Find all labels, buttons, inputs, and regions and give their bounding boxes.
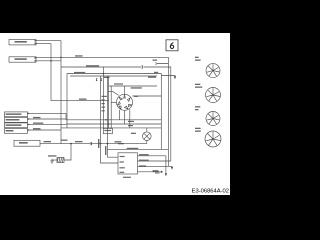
ignition switch terminal marks xyxy=(118,95,132,109)
harness bundle verticals xyxy=(101,76,119,163)
stub label tb xyxy=(153,60,158,61)
relay box small xyxy=(103,128,112,133)
wire label blower xyxy=(61,140,68,141)
relay label xyxy=(104,130,111,131)
junction dots xyxy=(50,57,109,145)
wire label starter 1 xyxy=(44,141,52,142)
harness stack labels xyxy=(102,96,107,97)
inline connector on starter wire xyxy=(91,142,92,145)
wire switch top-left bend xyxy=(108,91,119,95)
connector view 4 xyxy=(205,131,221,147)
wire right edge stub xyxy=(161,75,175,78)
drop arrow right b xyxy=(165,173,167,176)
connector view 3 xyxy=(206,112,220,126)
housing inlet connectors xyxy=(96,78,102,81)
bottom row label a xyxy=(128,121,134,122)
rotated harness label a xyxy=(98,139,99,148)
meter circle xyxy=(143,132,152,141)
wire switch left stub xyxy=(111,101,116,103)
wire row to right drops xyxy=(107,148,168,150)
module pin labels xyxy=(120,156,125,157)
wire label row86 left xyxy=(114,83,123,84)
wire L1 top to bus x61 xyxy=(36,40,61,42)
bottom row label b xyxy=(128,125,133,126)
switch housing sides xyxy=(67,74,161,150)
rotated harness label b xyxy=(105,146,106,155)
headlight L1 box xyxy=(9,40,36,45)
wire fuse to ground xyxy=(52,159,57,161)
splice square xyxy=(161,171,163,173)
wire label lt gr mid xyxy=(79,99,87,100)
meter label xyxy=(131,133,136,134)
connector 4 caption xyxy=(195,128,201,129)
wire label or bl xyxy=(33,128,41,129)
afterfire sol box xyxy=(5,118,28,123)
afterfire sol label xyxy=(6,119,20,121)
wire label or rd bk xyxy=(33,123,43,124)
wire L2 top long run across to right drop xyxy=(36,57,168,166)
wire label switch inner xyxy=(134,96,138,97)
ignition switch circle xyxy=(117,94,133,110)
headlight L1 label xyxy=(15,41,27,43)
wire switch top stub xyxy=(124,86,126,94)
drop arrow right a xyxy=(171,167,173,170)
tiny text smudges xyxy=(6,41,203,178)
wire bus x61 down xyxy=(60,41,62,144)
inline connector pair xyxy=(142,66,143,69)
wire label starter 2 xyxy=(75,141,83,142)
lower splice label xyxy=(153,170,159,171)
starter box xyxy=(14,140,40,146)
module wire labels xyxy=(139,154,149,155)
letterbox background xyxy=(0,0,230,230)
housing top right label xyxy=(148,77,156,78)
wire magneto xyxy=(30,129,62,131)
module wires right xyxy=(138,156,173,174)
wire terminal row xyxy=(109,85,157,87)
interlock module box xyxy=(118,153,138,174)
module bottom wire xyxy=(138,171,161,173)
wire alternator AC xyxy=(30,113,67,119)
callout 6 box xyxy=(166,40,178,51)
wire bundle top tie xyxy=(102,67,104,76)
wire label lt blk xyxy=(118,143,124,144)
wire switch right stub xyxy=(132,95,161,97)
connector 3 caption xyxy=(195,106,200,107)
connector view 1 xyxy=(206,64,220,78)
switch housing top xyxy=(67,73,161,75)
junction fuse tap xyxy=(64,144,71,160)
module bottom label xyxy=(123,177,131,178)
wire starter run to meter stem xyxy=(40,143,147,145)
wire label switch top xyxy=(131,87,142,88)
wire meter top stem xyxy=(146,128,148,132)
starter label xyxy=(19,142,28,144)
wire L1 bottom to bus x51 xyxy=(36,43,51,45)
diagram white sheet xyxy=(0,33,230,195)
wire label rd blk xyxy=(74,72,85,73)
headlight L1 pins xyxy=(35,40,37,44)
headlight L2 pins xyxy=(35,58,37,62)
wire label blk wh xyxy=(86,65,99,66)
wire label lt rd left xyxy=(33,117,41,118)
magneto box xyxy=(5,129,28,134)
wire switch bottom drops xyxy=(120,109,130,128)
drop arrow top right xyxy=(174,76,176,79)
svg-text:E3-06864A-02: E3-06864A-02 xyxy=(192,189,229,195)
wire L2 bottom xyxy=(36,60,61,62)
alternator DC box xyxy=(5,123,28,128)
wire label rd blk row xyxy=(127,148,139,149)
meter cross xyxy=(144,133,150,139)
wire stub tb xyxy=(156,62,169,65)
connector view 2 xyxy=(206,88,221,103)
wire housing bottom rows xyxy=(61,120,161,128)
housing inlet label xyxy=(104,77,110,78)
wire mid horizontal xyxy=(61,66,141,68)
callout 6 digit xyxy=(170,43,173,49)
wire connector to right drop xyxy=(144,67,171,161)
alternator AC box xyxy=(5,112,28,117)
wire meter bottom stem xyxy=(146,141,148,144)
connector 2 caption xyxy=(195,84,200,85)
headlight L2 box xyxy=(9,57,36,62)
switch housing inner top xyxy=(70,75,157,77)
wire bus x51 down then right xyxy=(51,44,109,101)
ground symbol xyxy=(50,159,53,164)
magneto label xyxy=(6,130,14,132)
wire label starter 3 xyxy=(115,141,122,142)
stub label wbl xyxy=(154,72,158,73)
fuse label xyxy=(48,155,56,156)
headlight L2 label xyxy=(15,58,27,60)
wire alternator DC xyxy=(30,123,67,125)
alternator DC label xyxy=(6,124,22,126)
left box pins xyxy=(28,113,30,131)
alternator AC label xyxy=(6,113,22,115)
connector 1 caption xyxy=(195,57,199,58)
fuse body xyxy=(57,158,64,163)
wire label lt gr top xyxy=(75,55,83,56)
wire afterfire sol xyxy=(30,118,67,120)
